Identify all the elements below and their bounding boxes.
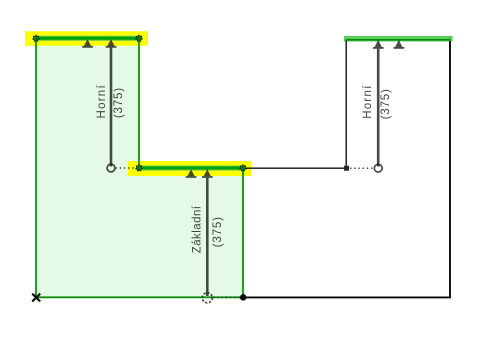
svg-text:Horní: Horní xyxy=(96,84,108,118)
slab outline bottom edge xyxy=(36,296,243,298)
arrow 2 shaft (Zakladni) xyxy=(206,178,209,296)
arrow 3 shaft (Horni, right) xyxy=(377,49,380,167)
endpoint node dot A2 xyxy=(136,35,142,41)
midpoint triangle of edge C xyxy=(395,40,402,47)
endpoint node dot A1 xyxy=(33,35,39,41)
support line B core xyxy=(139,167,243,170)
dotted connector from node circle 1 to edge B start xyxy=(116,167,136,169)
dotted connector from square node to node circle 3 xyxy=(350,167,374,169)
support line B halo xyxy=(139,166,243,171)
x marker at bottom-left corner xyxy=(32,294,40,302)
selection highlight band A (top-left edge) xyxy=(25,31,148,46)
endpoint node dot B2 xyxy=(240,165,246,171)
midpoint triangle C base bar xyxy=(394,47,405,49)
midpoint triangle B base bar xyxy=(186,176,197,178)
arrow 1 base bar xyxy=(106,46,117,48)
arrow 3 head xyxy=(375,40,382,47)
node circle 1 (bottom of arrow 1) xyxy=(107,164,115,172)
support line A halo xyxy=(36,36,139,41)
svg-text:Horní: Horní xyxy=(362,84,374,118)
svg-text:(375): (375) xyxy=(379,88,392,119)
arrow 1 shaft (Horni, left) xyxy=(110,48,113,167)
dotted connector from node circle 2 to bottom midpoint dot xyxy=(213,296,240,298)
support line A core xyxy=(36,37,139,40)
node circle 3 (bottom of arrow 3) xyxy=(374,164,382,172)
right panel left edge (black) xyxy=(345,41,347,166)
selection highlight band B (middle step edge) xyxy=(128,161,251,176)
midpoint triangle A base bar xyxy=(82,46,93,48)
slab region fill (left stepped panel) xyxy=(36,38,243,297)
arrow 3 base bar xyxy=(373,47,384,49)
arrow 1 head xyxy=(107,39,114,46)
support line C band (top-right, unselected) xyxy=(344,36,453,42)
slab outline inner vertical edge x=139 xyxy=(138,38,140,168)
slab outline lower-right vertical edge x=243 xyxy=(242,168,244,297)
endpoint node dot B1 xyxy=(136,165,142,171)
midpoint triangle of edge A xyxy=(84,39,91,46)
middle horizontal line (step boundary) xyxy=(243,167,345,169)
svg-text:(375): (375) xyxy=(112,87,125,118)
bottom horizontal line (black part) xyxy=(243,296,451,298)
arrow 2 base bar xyxy=(202,176,213,178)
node circle 2 (bottom of arrow 2, dashed) xyxy=(202,293,212,303)
svg-text:Základní: Základní xyxy=(192,205,204,253)
arrow 2 head xyxy=(204,169,211,176)
slab outline left edge xyxy=(35,38,37,297)
midpoint triangle of edge B xyxy=(187,169,194,176)
svg-text:(375): (375) xyxy=(211,216,224,247)
right panel right edge (black) xyxy=(449,41,451,297)
bottom midpoint black dot xyxy=(240,294,247,301)
support line C core xyxy=(346,39,451,41)
square node at right panel corner xyxy=(344,166,349,171)
